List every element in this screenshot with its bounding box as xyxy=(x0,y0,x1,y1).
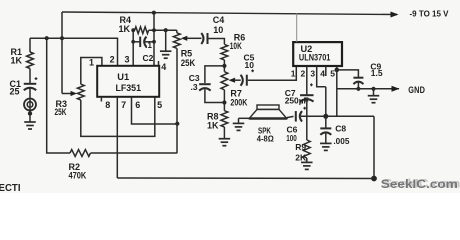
svg-text:8: 8 xyxy=(105,100,110,110)
node C9 dot xyxy=(356,87,360,91)
label C1 25 xyxy=(10,79,22,97)
node R7/R8 dot xyxy=(222,100,226,104)
ground R9 xyxy=(301,162,313,169)
label -9 TO 15 V xyxy=(391,9,450,18)
wire U1 pin 6 to feedback node xyxy=(132,97,178,124)
ground C8 xyxy=(320,143,332,150)
svg-text:1K: 1K xyxy=(11,56,23,66)
svg-text:.005: .005 xyxy=(333,136,349,146)
svg-text:-9 TO 15 V: -9 TO 15 V xyxy=(410,9,450,18)
capacitor C9 xyxy=(353,78,363,84)
svg-text:10K: 10K xyxy=(230,41,242,51)
label C6 100 xyxy=(286,125,297,144)
svg-text:25K: 25K xyxy=(55,107,67,117)
capacitor C6 xyxy=(296,107,306,122)
wire mic to ground xyxy=(28,111,32,115)
label R9 2K xyxy=(295,142,307,162)
node bottom rail dot xyxy=(371,176,377,182)
svg-text:1: 1 xyxy=(291,69,296,79)
svg-text:25K: 25K xyxy=(181,58,196,68)
label pin 4 xyxy=(161,62,166,72)
resistor R1 xyxy=(27,52,34,69)
node feedback dot xyxy=(175,122,179,126)
wire R2 to feedback node xyxy=(91,152,178,154)
wire input line xyxy=(30,38,118,66)
node output/C8 dot xyxy=(323,114,328,119)
node input line dot xyxy=(60,36,64,40)
ground near U1 pin 4 xyxy=(160,51,172,58)
svg-text:6: 6 xyxy=(135,100,140,110)
node rail feed dot xyxy=(152,11,156,15)
ground speaker xyxy=(233,123,245,130)
wire C3 top branch xyxy=(205,66,225,83)
resistor R2 xyxy=(70,150,91,157)
svg-text:GND: GND xyxy=(408,85,425,95)
wire U2 pin 2 to C7 xyxy=(306,66,308,95)
wire C3 bottom branch xyxy=(205,89,225,102)
label C9 1.5 xyxy=(370,62,382,78)
wire R3 bottom to pin 5 xyxy=(81,97,155,137)
ground GND rail xyxy=(368,89,380,103)
node GND ground dot xyxy=(371,87,375,91)
wire R5 wiper to C4 xyxy=(181,36,202,41)
svg-text:4: 4 xyxy=(161,62,166,72)
svg-text:ULN3701: ULN3701 xyxy=(299,52,331,62)
label R5 25K xyxy=(181,49,196,68)
node R4 left dots xyxy=(131,28,135,43)
svg-text:470K: 470K xyxy=(69,170,87,180)
wire U1 pin 8 stub xyxy=(100,97,102,102)
capacitor C4 xyxy=(201,33,207,44)
label R7 200K xyxy=(230,88,247,107)
label SPK 4-8 xyxy=(257,126,274,144)
wire ground stub xyxy=(165,30,167,51)
wire pin3 jog down to output node xyxy=(325,87,327,117)
node R4 right dots xyxy=(152,28,156,43)
label C2 .1 xyxy=(143,41,154,63)
wire R6 to R7 xyxy=(223,60,225,72)
wire R7 to R8 xyxy=(223,90,225,111)
caption ECTI xyxy=(0,182,21,194)
svg-text:1K: 1K xyxy=(207,121,219,131)
node R4 ground dot xyxy=(164,28,168,32)
wire speaker right lead xyxy=(287,116,294,117)
label U2 pins xyxy=(291,69,335,79)
svg-text:1.5: 1.5 xyxy=(371,68,383,78)
svg-text:250µF: 250µF xyxy=(285,96,309,106)
label C8 .005 xyxy=(333,124,349,147)
wire C7 to R9 xyxy=(306,99,308,140)
microphone input jack xyxy=(24,99,36,111)
label R8 1K xyxy=(207,111,219,130)
wire R3 wiper xyxy=(62,91,77,96)
wire R7 wiper xyxy=(229,78,241,83)
capacitor C1 xyxy=(24,77,38,90)
svg-text:.1: .1 xyxy=(145,41,152,50)
label U1 top pins xyxy=(89,54,130,67)
svg-text:SeekIC.com: SeekIC.com xyxy=(383,176,460,190)
amplifier U2 ULN3701 box xyxy=(293,42,342,66)
wire bottom rail xyxy=(117,177,374,180)
wire ground bus horizontal xyxy=(301,115,374,117)
svg-text:U1: U1 xyxy=(117,72,129,82)
label R3 25K xyxy=(55,99,68,117)
label C4 10 xyxy=(213,15,225,35)
resistor R9 xyxy=(303,140,310,158)
label U1 bottom pins xyxy=(105,100,162,110)
wire R3 top to pin 1 xyxy=(81,58,102,85)
label C7 250uF xyxy=(285,88,309,106)
speaker SPK 4-8ohm xyxy=(249,105,287,119)
resistor R3 potentiometer xyxy=(77,84,84,100)
wire pin 5 to C9 xyxy=(337,70,359,77)
wire R2 left leg xyxy=(47,38,70,153)
wire R5 bottom to R2 xyxy=(176,48,178,153)
svg-text:10: 10 xyxy=(245,60,255,70)
label R2 470K xyxy=(69,162,87,180)
wire U2 pin 5 down xyxy=(336,66,338,116)
resistor R8 xyxy=(221,111,228,127)
svg-text:200K: 200K xyxy=(230,97,247,107)
wire rail to R4/C2 node xyxy=(153,13,155,66)
svg-text:7: 7 xyxy=(121,100,126,110)
wire U2 pin 3 jog xyxy=(317,66,326,87)
svg-text:ECTI: ECTI xyxy=(0,182,21,193)
wire C1 to mic xyxy=(29,89,31,122)
svg-text:4-8Ω: 4-8Ω xyxy=(257,134,274,144)
wire speaker left to ground xyxy=(239,118,250,123)
node R2 tap dot xyxy=(45,36,49,40)
wire U1 pin 4 stub xyxy=(158,61,160,66)
label C3 .3 xyxy=(189,73,200,92)
wire R1 to C1 xyxy=(29,69,31,84)
ground R8 xyxy=(219,139,231,146)
svg-text:C8: C8 xyxy=(335,124,346,134)
label R1 1K xyxy=(11,47,23,65)
wire U2 supply from rail xyxy=(296,13,298,42)
wire +V top rail xyxy=(62,12,397,15)
svg-text:.3: .3 xyxy=(191,82,198,92)
wire C5 to U2 pin 1 xyxy=(248,66,296,80)
svg-text:1K: 1K xyxy=(119,24,131,34)
wire C8 to ground xyxy=(325,133,327,143)
node R6/R7 dot xyxy=(222,64,226,68)
capacitor C7 250uF xyxy=(300,83,314,101)
resistor R5 potentiometer xyxy=(173,30,180,48)
watermark SeekIC.com xyxy=(381,176,460,191)
resistor R4 xyxy=(133,27,177,34)
wire C4 to R6 xyxy=(209,39,225,45)
wire R1 top lead xyxy=(29,38,31,52)
label R4 1K xyxy=(119,15,132,34)
label GND xyxy=(392,85,426,95)
svg-text:2: 2 xyxy=(110,54,115,64)
svg-text:10: 10 xyxy=(213,25,223,35)
wire U1 pin 7 to bottom rail xyxy=(116,97,118,178)
capacitor C2 xyxy=(133,37,154,48)
capacitor C5 xyxy=(241,69,254,85)
wire R9 to ground xyxy=(306,158,308,162)
svg-text:LF351: LF351 xyxy=(116,83,142,93)
capacitor C8 xyxy=(320,116,331,135)
capacitor C3 xyxy=(199,84,211,90)
svg-text:R9: R9 xyxy=(295,142,306,152)
svg-text:2K: 2K xyxy=(295,152,307,162)
wire C9 to GND rail xyxy=(357,82,359,89)
wire GND rail xyxy=(337,88,399,90)
svg-text:4: 4 xyxy=(320,69,325,79)
svg-text:5: 5 xyxy=(157,100,162,110)
wire right vertical to bottom rail xyxy=(373,116,375,178)
node U2 pin 5 dot xyxy=(335,68,340,73)
svg-text:C2: C2 xyxy=(143,53,154,63)
svg-text:5: 5 xyxy=(330,69,335,79)
ground mic xyxy=(24,122,36,129)
svg-text:25: 25 xyxy=(10,86,20,96)
svg-text:C4: C4 xyxy=(213,15,225,25)
wire U2 pin 4 stub xyxy=(325,66,327,76)
svg-text:3: 3 xyxy=(125,54,130,64)
svg-text:3: 3 xyxy=(310,69,315,79)
wire rail drop to input node and R3 wiper xyxy=(61,12,63,94)
wire R8 to ground xyxy=(223,127,225,138)
label C5 10 xyxy=(244,53,255,71)
svg-text:1: 1 xyxy=(89,58,94,68)
label R6 10K xyxy=(230,33,246,51)
svg-text:2: 2 xyxy=(301,69,306,79)
wire pin3 riser xyxy=(132,30,134,66)
resistor R6 xyxy=(221,44,228,60)
op-amp U1 LF351 box xyxy=(97,66,159,97)
resistor R7 potentiometer xyxy=(221,72,228,90)
